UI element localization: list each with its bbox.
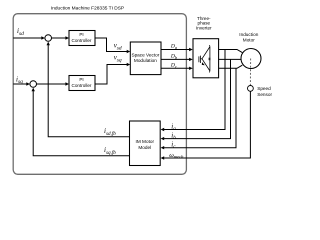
block: PI Controller 2 [69,76,95,91]
wire: phase c inverter to motor [219,65,243,68]
svg-text:Db: Db [170,54,178,61]
svg-text:ic: ic [171,141,176,151]
svg-text:Controller: Controller [72,83,92,88]
wire: phase b inverter to motor [219,58,242,60]
svg-text:Inverter: Inverter [196,25,212,30]
svg-text:ia: ia [171,122,176,132]
svg-text:Controller: Controller [72,38,92,43]
wire: J2 to PI2 [37,83,68,85]
block: IM Motor Model [130,121,161,166]
wire: omega_mech from sensor [162,91,250,158]
DSP boundary box [13,14,186,175]
svg-text:isd: isd [17,27,24,37]
tiny IGBT mark on bus bar [209,58,211,61]
wire: SVM out Db [161,58,191,60]
wire: i_sd,fb feedback [48,43,129,137]
wire: i_sd input [13,37,43,39]
block: Three-phase Inverter [193,39,219,78]
sensor: Speed Sensor circle [248,86,254,92]
wire: phase a inverter to motor [219,50,243,53]
svg-text:vsq: vsq [114,54,122,64]
block: Space Vector Modulation [130,42,161,75]
svg-text:IM Motor: IM Motor [136,139,155,144]
svg-text:Modulation: Modulation [134,58,157,63]
motor: Induction Motor circle [241,49,261,69]
svg-text:Da: Da [170,44,177,51]
wire: i_sq,fb feedback [33,89,129,156]
svg-text:ωmech: ωmech [169,152,184,159]
svg-text:PI: PI [79,32,83,37]
svg-text:Sensor: Sensor [257,92,272,97]
wire: tap ic down [162,68,236,147]
block: PI Controller 1 [69,31,95,46]
svg-text:isd,fb: isd,fb [104,127,116,137]
shaft dashed line [249,59,251,86]
inverter IGBT symbol [199,45,210,72]
wire: SVM out Dc [161,67,191,69]
svg-text:PI: PI [79,77,83,82]
wire: J1 to PI1 [52,37,68,39]
svg-text:Space Vector: Space Vector [131,52,159,57]
wire: PI2 to SVM (v_sq) [95,65,129,85]
svg-text:isq,fb: isq,fb [104,146,116,156]
svg-text:Model: Model [138,145,151,150]
summing junction J1 [45,35,52,42]
wire: i_sq input [13,83,28,85]
summing junction J2 [30,81,37,88]
svg-text:vsd: vsd [114,42,122,52]
svg-text:Dc: Dc [170,63,177,70]
svg-text:isq: isq [16,75,23,85]
wire: SVM out Da [161,49,191,51]
svg-text:Motor: Motor [243,37,255,42]
wire: tap ib down [162,59,231,138]
wire: tap ia down [162,50,225,130]
svg-text:Induction Machine F28335 TI DS: Induction Machine F28335 TI DSP [51,5,124,11]
svg-text:Speed: Speed [257,86,271,91]
wire: PI1 to SVM (v_sd) [95,38,129,52]
